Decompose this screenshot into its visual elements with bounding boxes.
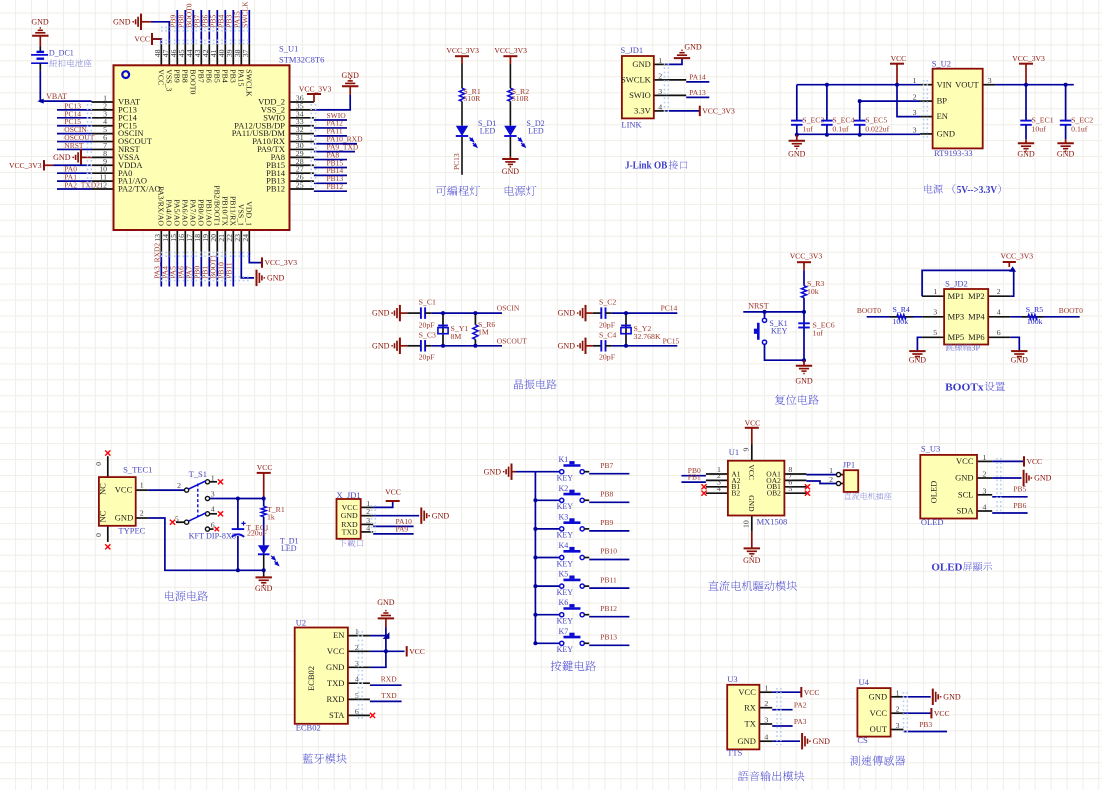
svg-text:GND: GND (1011, 356, 1029, 365)
svg-text:OSCOUT: OSCOUT (497, 336, 527, 345)
svg-text:U2: U2 (296, 618, 306, 628)
svg-text:SWIO: SWIO (629, 90, 651, 100)
svg-text:PA3: PA3 (794, 717, 807, 726)
svg-text:GND: GND (955, 473, 973, 483)
svg-text:GND: GND (502, 167, 520, 176)
svg-text:GND: GND (813, 737, 831, 746)
svg-text:EN: EN (333, 630, 344, 640)
svg-text:PA13: PA13 (689, 88, 706, 97)
svg-text:K4: K4 (559, 541, 569, 550)
svg-text:20pF: 20pF (599, 353, 616, 362)
svg-text:MP3: MP3 (948, 311, 965, 321)
svg-text:TX: TX (745, 719, 756, 729)
svg-text:K3: K3 (559, 512, 569, 521)
svg-text:TTS: TTS (727, 748, 742, 758)
svg-text:PB12: PB12 (600, 604, 617, 613)
svg-text:2: 2 (658, 71, 662, 80)
svg-text:PA15: PA15 (236, 69, 245, 86)
svg-text:0.1uf: 0.1uf (1071, 125, 1088, 134)
svg-text:MP2: MP2 (968, 291, 985, 301)
svg-text:5V-->3.3V: 5V-->3.3V (957, 185, 998, 196)
svg-text:S_U1: S_U1 (279, 43, 298, 53)
svg-text:PA2/TX/AO: PA2/TX/AO (118, 184, 161, 194)
svg-text:RT9193-33: RT9193-33 (934, 148, 973, 158)
svg-text:3: 3 (211, 489, 215, 498)
svg-text:CS: CS (857, 735, 868, 745)
svg-text:KEY: KEY (557, 474, 574, 483)
svg-text:VCC: VCC (134, 35, 150, 44)
svg-text:0: 0 (94, 462, 103, 466)
svg-text:GND: GND (795, 377, 813, 386)
svg-text:VCC: VCC (870, 708, 888, 718)
svg-text:VOUT: VOUT (955, 79, 979, 89)
svg-text:3: 3 (896, 721, 900, 730)
svg-text:SDA: SDA (956, 506, 974, 516)
svg-text:2: 2 (764, 699, 768, 708)
svg-text:2: 2 (896, 705, 900, 714)
svg-text:20pF: 20pF (599, 321, 616, 330)
svg-text:GND: GND (267, 274, 285, 283)
svg-text:BOOT0: BOOT0 (188, 69, 197, 94)
svg-text:4: 4 (764, 733, 768, 742)
svg-text:PB12: PB12 (327, 182, 344, 191)
svg-text:PA7/AO: PA7/AO (188, 199, 197, 226)
svg-text:4: 4 (211, 505, 215, 514)
svg-text:VCC: VCC (738, 687, 756, 697)
svg-text:KEY: KEY (557, 617, 574, 626)
svg-text:4: 4 (717, 484, 721, 493)
svg-text:100k: 100k (893, 317, 909, 326)
svg-text:100k: 100k (1027, 317, 1043, 326)
svg-text:BOOT0: BOOT0 (857, 306, 881, 315)
svg-text:1M: 1M (478, 327, 489, 336)
svg-text:6: 6 (997, 328, 1001, 337)
svg-text:PA4/AO: PA4/AO (164, 199, 173, 226)
svg-text:PB7: PB7 (196, 69, 205, 83)
svg-text:ECB02: ECB02 (306, 666, 316, 691)
svg-text:GND: GND (372, 341, 390, 350)
svg-text:0: 0 (94, 533, 103, 537)
svg-text:1: 1 (829, 466, 833, 475)
svg-text:KEY: KEY (557, 531, 574, 540)
svg-text:PA14: PA14 (689, 72, 706, 81)
svg-text:GND: GND (115, 513, 133, 523)
svg-text:GND: GND (747, 495, 756, 512)
svg-text:VCC: VCC (934, 709, 950, 718)
svg-text:GND: GND (632, 59, 650, 69)
svg-text:5: 5 (788, 484, 792, 493)
svg-text:3: 3 (658, 87, 662, 96)
svg-text:PB9: PB9 (600, 518, 613, 527)
svg-text:GND: GND (909, 356, 927, 365)
svg-text:VSS_3: VSS_3 (164, 69, 173, 91)
svg-text:VCC: VCC (327, 646, 345, 656)
svg-text:NRST: NRST (748, 302, 769, 311)
svg-text:GND: GND (937, 129, 955, 139)
svg-text:K2: K2 (559, 484, 569, 493)
svg-text:VBAT: VBAT (46, 92, 67, 101)
svg-text:U1: U1 (729, 447, 739, 457)
svg-text:NRST: NRST (64, 141, 84, 150)
svg-text:GND: GND (432, 511, 450, 520)
svg-text:PB7: PB7 (600, 461, 613, 470)
svg-text:TXD: TXD (342, 527, 358, 536)
svg-text:PB6: PB6 (1013, 501, 1026, 510)
svg-text:S_C1: S_C1 (419, 298, 436, 307)
svg-text:RXD: RXD (381, 675, 397, 684)
svg-text:3.3V: 3.3V (634, 106, 652, 116)
svg-text:S_U3: S_U3 (921, 443, 940, 453)
svg-text:SWCLK: SWCLK (621, 75, 652, 85)
svg-text:GND: GND (53, 153, 71, 162)
svg-text:KEY: KEY (557, 588, 574, 597)
svg-text:PB6: PB6 (204, 69, 213, 83)
svg-text:B2: B2 (731, 489, 740, 498)
svg-text:PA9: PA9 (396, 524, 409, 533)
svg-text:2: 2 (829, 475, 833, 484)
svg-text:ECB02: ECB02 (296, 723, 321, 733)
svg-text:VSS_1: VSS_1 (236, 204, 245, 226)
svg-text:PA6/AO: PA6/AO (180, 199, 189, 226)
svg-text:6: 6 (355, 707, 359, 716)
svg-text:S_JD1: S_JD1 (621, 45, 644, 55)
svg-text:K5: K5 (559, 570, 569, 579)
svg-text:J-Link OB: J-Link OB (625, 160, 668, 172)
svg-text:4: 4 (366, 523, 370, 532)
svg-text:PB10/TX: PB10/TX (220, 196, 229, 226)
svg-text:BOOT0: BOOT0 (1059, 306, 1083, 315)
svg-text:VCC: VCC (409, 647, 425, 656)
svg-text:12: 12 (99, 181, 107, 190)
svg-text:2: 2 (997, 287, 1001, 296)
svg-text:VCC: VCC (804, 688, 820, 697)
svg-text:VCC: VCC (156, 69, 165, 85)
svg-text:PB12: PB12 (266, 184, 285, 194)
svg-text:PB1: PB1 (688, 472, 701, 481)
svg-text:KEY: KEY (771, 327, 788, 336)
svg-text:1uf: 1uf (802, 125, 813, 134)
svg-text:RX: RX (744, 702, 756, 712)
svg-text:1uf: 1uf (813, 328, 824, 337)
svg-text:0.1uf: 0.1uf (832, 125, 849, 134)
svg-text:VDD_1: VDD_1 (244, 201, 253, 226)
svg-text:OLED: OLED (929, 481, 939, 504)
svg-text:3P: 3P (971, 344, 980, 353)
svg-text:510R: 510R (463, 94, 481, 103)
svg-text:PB3: PB3 (228, 69, 237, 83)
svg-text:S_C3: S_C3 (419, 330, 436, 339)
svg-text:OLED: OLED (931, 561, 962, 573)
svg-text:U3: U3 (727, 674, 737, 684)
svg-text:GND: GND (943, 692, 961, 701)
svg-text:3: 3 (988, 76, 992, 85)
svg-text:GND: GND (1017, 150, 1035, 159)
svg-text:PB13: PB13 (600, 633, 617, 642)
svg-text:GND: GND (326, 662, 344, 672)
svg-text:4: 4 (658, 102, 662, 111)
svg-text:SCL: SCL (958, 489, 974, 499)
svg-text:1: 1 (896, 688, 900, 697)
svg-text:PB1/AO: PB1/AO (204, 199, 213, 226)
svg-text:OB2: OB2 (767, 489, 781, 498)
svg-text:BOOTx: BOOTx (945, 381, 984, 393)
svg-text:VCC_3V3: VCC_3V3 (1001, 252, 1034, 261)
svg-text:9: 9 (742, 448, 751, 452)
svg-text:SWCLK: SWCLK (241, 1, 250, 28)
svg-text:GND: GND (869, 691, 887, 701)
svg-text:U4: U4 (859, 677, 870, 687)
svg-text:S_R5: S_R5 (1026, 305, 1043, 314)
svg-text:1: 1 (764, 684, 768, 693)
svg-text:VCC: VCC (115, 485, 133, 495)
svg-text:PC13: PC13 (452, 153, 461, 170)
svg-text:MP6: MP6 (968, 332, 985, 342)
svg-text:S_TEC1: S_TEC1 (123, 464, 152, 474)
svg-text:VCC_3V3: VCC_3V3 (299, 84, 332, 93)
svg-text:VCC: VCC (956, 456, 974, 466)
svg-text:VIN: VIN (937, 79, 952, 89)
svg-text:NC: NC (97, 483, 107, 495)
svg-text:10: 10 (742, 520, 751, 528)
svg-text:PC14: PC14 (661, 304, 678, 313)
svg-text:PA5/AO: PA5/AO (172, 199, 181, 226)
svg-text:KFT DIP-8X8: KFT DIP-8X8 (189, 531, 236, 540)
svg-text:S_U2: S_U2 (932, 58, 951, 68)
svg-text:GND: GND (372, 309, 390, 318)
svg-text:EN: EN (937, 111, 948, 121)
svg-text:PB5: PB5 (1013, 485, 1026, 494)
svg-text:510R: 510R (512, 94, 530, 103)
svg-text:GND: GND (31, 18, 49, 27)
svg-text:S_JD2: S_JD2 (945, 278, 968, 288)
svg-text:MX1508: MX1508 (757, 517, 788, 527)
svg-text:S_EC5: S_EC5 (865, 116, 887, 125)
svg-text:VCC: VCC (745, 419, 761, 428)
svg-text:PC15: PC15 (663, 336, 680, 345)
svg-text:LED: LED (281, 544, 297, 553)
svg-text:PB8: PB8 (600, 490, 613, 499)
svg-text:VCC: VCC (257, 463, 273, 472)
svg-text:PB3: PB3 (919, 720, 932, 729)
svg-text:VCC: VCC (385, 487, 401, 496)
svg-text:S_EC4: S_EC4 (832, 116, 854, 125)
svg-text:S_EC1: S_EC1 (1032, 116, 1054, 125)
svg-text:1: 1 (933, 287, 937, 296)
svg-text:MP5: MP5 (948, 332, 965, 342)
svg-text:GND: GND (377, 598, 395, 607)
svg-text:RXD: RXD (326, 694, 344, 704)
svg-text:GND: GND (341, 511, 358, 520)
svg-text:PB4: PB4 (220, 69, 229, 83)
svg-text:VCC: VCC (891, 54, 907, 63)
svg-text:KEY: KEY (557, 502, 574, 511)
svg-text:K7: K7 (559, 627, 569, 636)
svg-text:GND: GND (113, 17, 131, 26)
svg-text:LED: LED (480, 127, 496, 136)
svg-text:2: 2 (177, 481, 181, 490)
svg-text:10uf: 10uf (1032, 125, 1047, 134)
svg-text:1: 1 (658, 56, 662, 65)
svg-text:LINK: LINK (621, 119, 642, 129)
svg-text:PB8: PB8 (180, 69, 189, 83)
svg-text:SWCLK: SWCLK (244, 69, 253, 97)
svg-text:GND: GND (558, 341, 576, 350)
svg-text:GND: GND (737, 736, 755, 746)
svg-text:STM32C8T6: STM32C8T6 (279, 54, 324, 64)
svg-text:10k: 10k (807, 287, 819, 296)
svg-text:VCC_3V3: VCC_3V3 (446, 46, 479, 55)
svg-text:S_R4: S_R4 (893, 305, 910, 314)
svg-text:3: 3 (933, 308, 937, 317)
svg-text:2: 2 (140, 509, 144, 518)
svg-text:VCC: VCC (1027, 457, 1043, 466)
svg-text:JP1: JP1 (843, 459, 855, 469)
svg-text:25: 25 (296, 181, 304, 190)
svg-text:PB0/AO: PB0/AO (196, 199, 205, 226)
svg-text:220uF: 220uF (247, 529, 268, 538)
svg-text:K1: K1 (559, 455, 569, 464)
svg-text:GND: GND (1034, 474, 1052, 483)
svg-text:BP: BP (937, 96, 948, 106)
svg-text:2: 2 (983, 470, 987, 479)
svg-text:PB11: PB11 (600, 575, 617, 584)
svg-text:1: 1 (983, 453, 987, 462)
svg-text:3: 3 (764, 716, 768, 725)
svg-text:MP1: MP1 (948, 291, 965, 301)
svg-text:PB11/RX: PB11/RX (228, 196, 237, 226)
svg-text:S_EC2: S_EC2 (1071, 116, 1093, 125)
svg-text:VCC_3V3: VCC_3V3 (702, 107, 735, 116)
svg-text:GND: GND (684, 43, 702, 52)
svg-text:MP4: MP4 (968, 311, 985, 321)
svg-text:VCC_3V3: VCC_3V3 (9, 161, 42, 170)
svg-text:TXD: TXD (327, 678, 344, 688)
svg-text:GND: GND (558, 309, 576, 318)
svg-text:OSCIN: OSCIN (497, 304, 520, 313)
svg-text:37: 37 (241, 49, 250, 57)
svg-text:GND: GND (788, 150, 806, 159)
svg-text:1k: 1k (267, 512, 275, 521)
svg-text:PB2/BOOT1: PB2/BOOT1 (212, 185, 221, 226)
svg-text:VCC_3V3: VCC_3V3 (1012, 54, 1045, 63)
svg-text:PA2: PA2 (794, 701, 807, 710)
svg-text:OLED: OLED (921, 517, 944, 527)
svg-text:KEY: KEY (557, 645, 574, 654)
svg-text:VCC: VCC (747, 465, 756, 480)
svg-text:2: 2 (366, 507, 370, 516)
svg-text:0.022uf: 0.022uf (865, 125, 889, 134)
svg-text:S_C4: S_C4 (599, 330, 616, 339)
svg-text:32.768K: 32.768K (634, 332, 661, 341)
svg-text:20pF: 20pF (419, 321, 436, 330)
svg-text:GND: GND (484, 467, 502, 476)
svg-text:GND: GND (743, 556, 761, 565)
svg-text:K6: K6 (559, 598, 569, 607)
svg-text:LED: LED (528, 127, 544, 136)
svg-text:PB9: PB9 (172, 69, 181, 83)
svg-text:T_S1: T_S1 (189, 469, 207, 479)
svg-text:PB5: PB5 (212, 69, 221, 83)
svg-text:STA: STA (329, 710, 345, 720)
svg-text:20pF: 20pF (419, 353, 436, 362)
svg-text:TYPEC: TYPEC (118, 526, 145, 536)
svg-text:4: 4 (983, 503, 987, 512)
svg-text:TXD: TXD (381, 691, 397, 700)
svg-text:VCC_3V3: VCC_3V3 (494, 46, 527, 55)
svg-text:OUT: OUT (870, 724, 888, 734)
svg-text:D_DC1: D_DC1 (49, 48, 74, 57)
svg-text:5: 5 (933, 328, 937, 337)
svg-text:VCC_3V3: VCC_3V3 (790, 252, 823, 261)
svg-text:3: 3 (983, 486, 987, 495)
svg-text:1: 1 (140, 481, 144, 490)
svg-text:VCC_3V3: VCC_3V3 (265, 258, 298, 267)
svg-text:S_C2: S_C2 (599, 298, 616, 307)
svg-text:GND: GND (255, 584, 273, 593)
svg-text:24: 24 (241, 234, 250, 242)
svg-text:GND: GND (1057, 150, 1075, 159)
svg-text:KEY: KEY (557, 559, 574, 568)
svg-text:PA3/RX/AO: PA3/RX/AO (156, 186, 165, 226)
svg-text:4: 4 (997, 308, 1001, 317)
svg-text:PA2_TXD2: PA2_TXD2 (64, 181, 100, 190)
svg-text:NC: NC (97, 510, 107, 522)
svg-text:PB10: PB10 (600, 547, 617, 556)
svg-text:8M: 8M (451, 332, 462, 341)
svg-text:3: 3 (913, 125, 917, 134)
